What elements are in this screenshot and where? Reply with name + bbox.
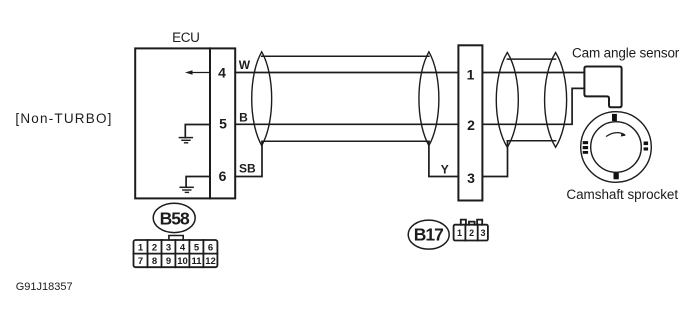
wire: connector pin 3 to sensor shield <box>482 141 507 177</box>
svg-text:11: 11 <box>191 256 202 267</box>
ground at pin 6 <box>180 177 210 193</box>
svg-text:2: 2 <box>469 228 474 238</box>
B58 grid numbers row 2 <box>138 256 216 267</box>
svg-text:5: 5 <box>194 242 200 253</box>
B58 connector key tab <box>169 236 183 241</box>
B17 pin diagram body <box>454 220 488 241</box>
arrow into pin 4 <box>185 70 210 74</box>
sensor shield right ellipse <box>545 53 567 148</box>
sensor shield cylinder top <box>507 58 555 60</box>
wire B: ECU pin 5 to connector pin 2 <box>235 123 458 125</box>
svg-text:1: 1 <box>467 66 475 82</box>
svg-text:4: 4 <box>218 65 226 81</box>
ECU box outline <box>135 48 235 198</box>
svg-text:4: 4 <box>180 242 186 253</box>
svg-text:6: 6 <box>208 242 213 253</box>
svg-text:3: 3 <box>166 242 171 253</box>
sensor shield left ellipse <box>496 53 518 148</box>
svg-text:2: 2 <box>152 242 157 253</box>
svg-text:SB: SB <box>239 161 256 175</box>
B58 grid numbers row 1 <box>138 242 213 253</box>
svg-text:W: W <box>239 58 251 72</box>
svg-text:6: 6 <box>219 168 227 184</box>
shield cylinder bottom <box>262 140 429 142</box>
sprocket timing mark top <box>612 114 617 121</box>
svg-text:ECU: ECU <box>172 30 199 45</box>
sprocket timing marks left (three) <box>583 141 588 154</box>
svg-text:3: 3 <box>467 170 475 186</box>
svg-text:1: 1 <box>138 242 144 253</box>
svg-text:B: B <box>239 111 248 125</box>
camshaft sprocket outer circle <box>581 112 652 183</box>
ground at pin 5 <box>179 125 209 143</box>
svg-text:B58: B58 <box>160 208 190 228</box>
sensor shield cylinder bottom <box>507 140 555 142</box>
svg-text:Cam angle sensor: Cam angle sensor <box>572 46 680 61</box>
connector B58 label oval <box>153 203 195 232</box>
svg-text:8: 8 <box>152 256 157 267</box>
wire Y: shield to connector pin 3 <box>429 141 459 176</box>
B58 connector pin grid <box>134 240 218 267</box>
svg-text:12: 12 <box>205 256 216 267</box>
svg-text:10: 10 <box>177 256 188 267</box>
wire: connector pin 1 to sensor <box>482 72 584 74</box>
shield cylinder (main harness) top <box>262 55 429 57</box>
wire W: ECU pin 4 to connector pin 1 <box>235 72 458 74</box>
svg-text:3: 3 <box>480 228 485 238</box>
ECU pin column divider <box>209 48 211 198</box>
camshaft sprocket inner circle <box>591 122 642 173</box>
svg-text:[Non-TURBO]: [Non-TURBO] <box>15 111 112 126</box>
svg-text:5: 5 <box>219 116 227 132</box>
cam angle sensor body <box>584 67 621 108</box>
svg-text:Camshaft sprocket: Camshaft sprocket <box>566 187 678 202</box>
B17 pin diagram numbers <box>457 228 486 238</box>
svg-text:2: 2 <box>467 117 475 133</box>
connector B17 label oval <box>408 220 449 249</box>
shield right ellipse <box>419 52 439 146</box>
shield left ellipse <box>252 52 272 146</box>
svg-text:9: 9 <box>166 256 171 267</box>
connector B17 body (inline) <box>458 45 482 200</box>
svg-text:Y: Y <box>441 162 449 176</box>
sprocket timing mark bottom <box>614 173 619 180</box>
svg-text:B17: B17 <box>414 225 443 245</box>
svg-text:G91J18357: G91J18357 <box>16 281 73 293</box>
svg-text:7: 7 <box>138 256 143 267</box>
wire: connector pin 2 to sensor <box>482 88 584 124</box>
svg-text:1: 1 <box>457 228 462 238</box>
rotation arc inside sprocket <box>607 133 625 137</box>
wire SB: ECU pin 6 to shield <box>235 141 262 176</box>
sprocket timing marks right (two) <box>644 142 649 151</box>
